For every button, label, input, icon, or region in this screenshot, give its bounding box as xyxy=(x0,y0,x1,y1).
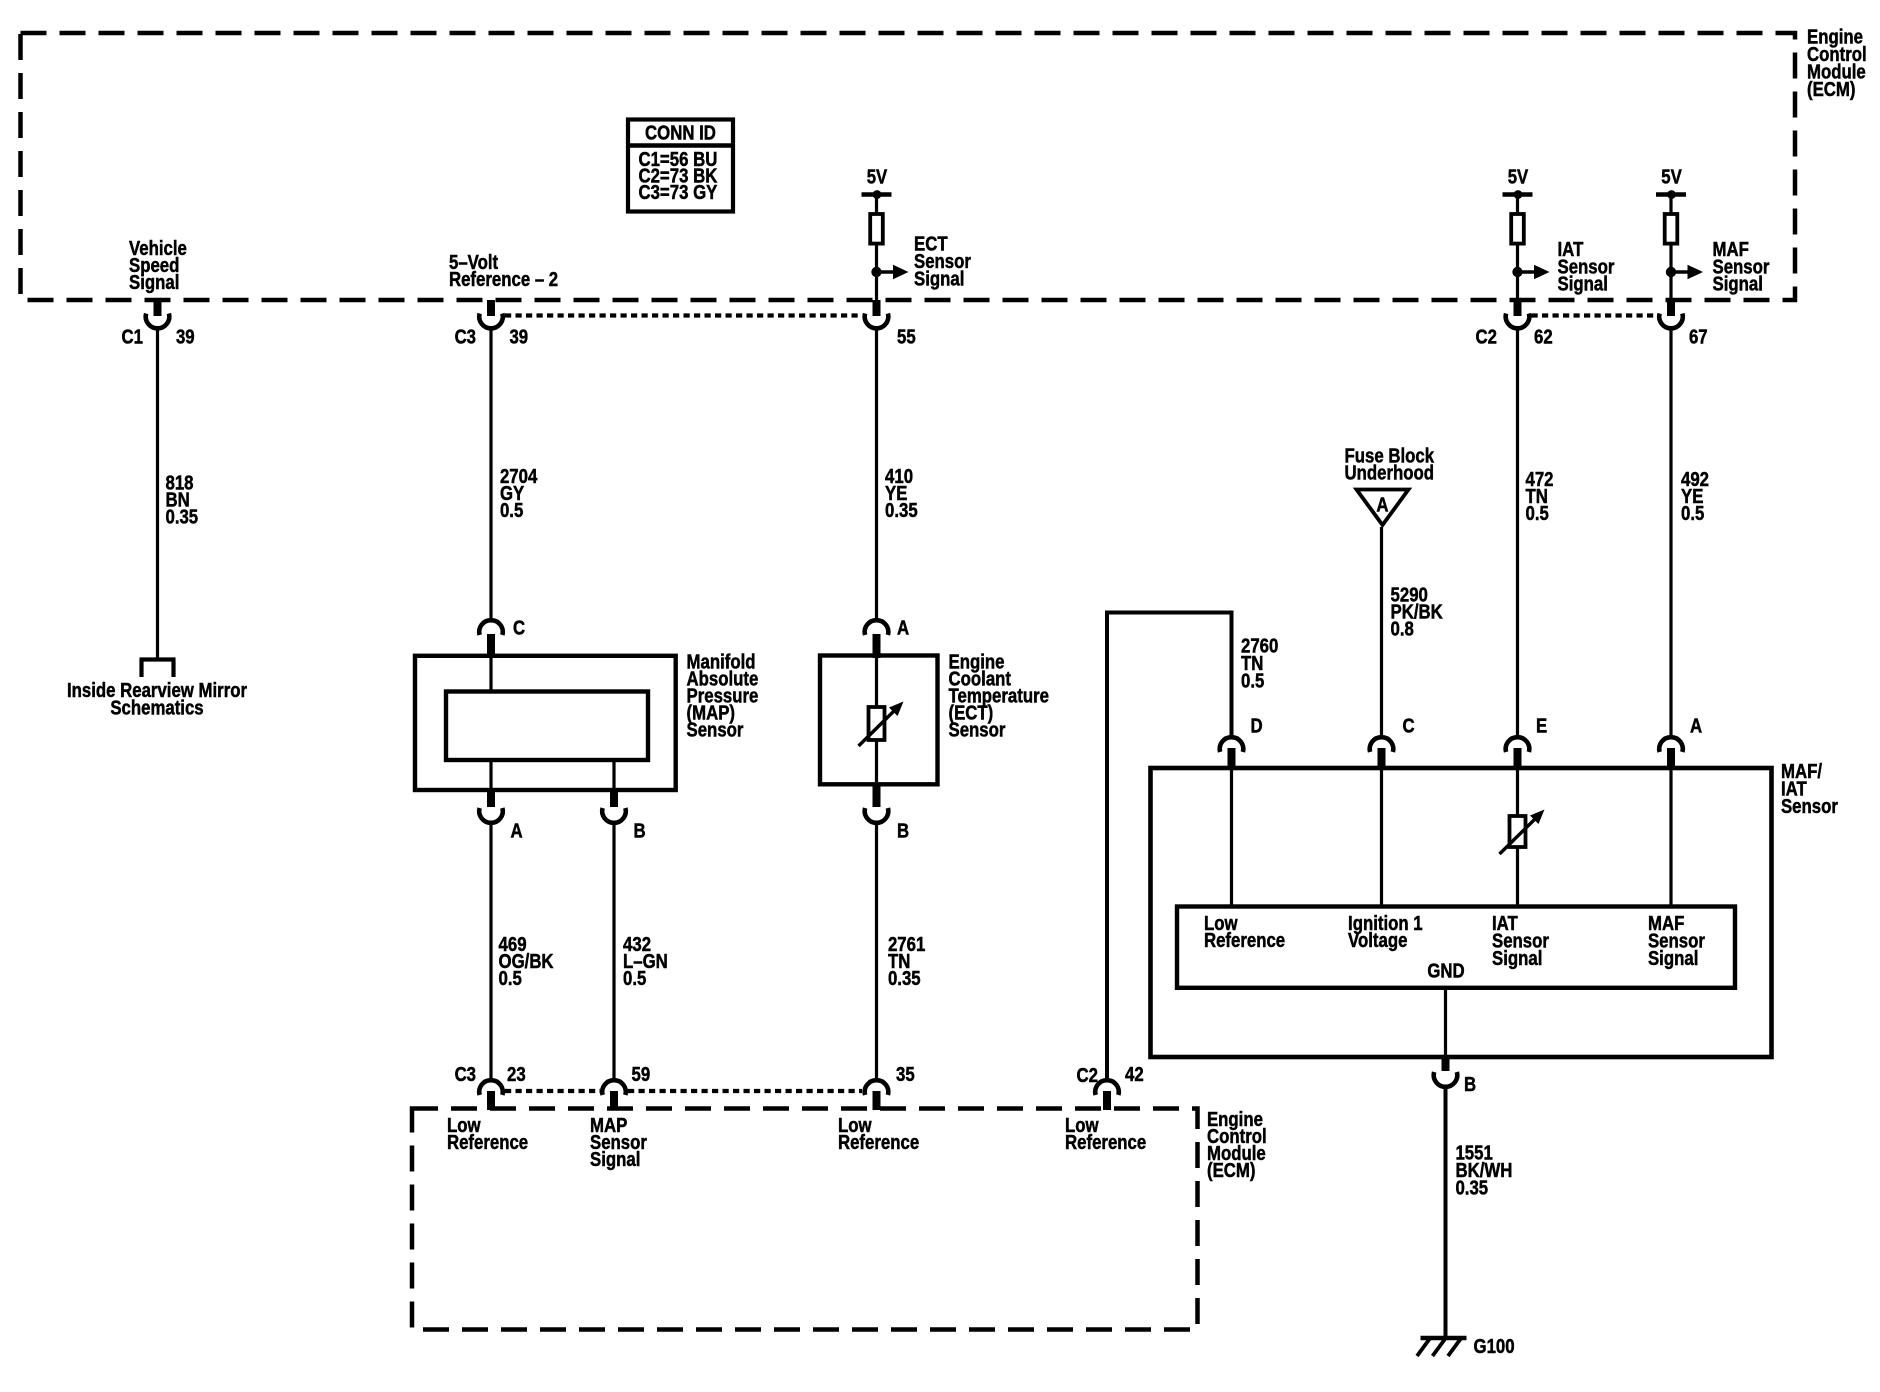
label MAF Sensor Signal (inner) xyxy=(1648,912,1705,970)
wire label 432 L-GN 0.5 xyxy=(623,933,668,990)
svg-text:G100: G100 xyxy=(1474,1335,1515,1358)
wire 492 YE 0.5 xyxy=(1669,329,1672,736)
pull-up resistor (ECT) xyxy=(870,214,883,244)
svg-text:42: 42 xyxy=(1125,1063,1144,1086)
connector C1 pin 39 xyxy=(122,300,195,348)
connector pin C (MAP) xyxy=(479,616,525,658)
svg-text:39: 39 xyxy=(176,325,195,348)
wire 410 YE 0.35 xyxy=(875,329,878,619)
wire IAT signal (inside ECM) xyxy=(1516,243,1519,303)
svg-text:A: A xyxy=(1690,714,1702,737)
connector pin A (MAP) xyxy=(479,789,522,842)
svg-text:5V: 5V xyxy=(1508,165,1529,188)
node: Vehicle Speed Signal xyxy=(129,237,187,294)
MAF/IAT inner block xyxy=(1177,907,1735,988)
label Low Reference (pin 35) xyxy=(838,1114,919,1154)
label G100 xyxy=(1474,1335,1515,1358)
wire 469 OG/BK 0.5 xyxy=(489,824,492,1080)
svg-text:C2: C2 xyxy=(1476,325,1497,348)
svg-text:C: C xyxy=(1402,714,1414,737)
svg-text:55: 55 xyxy=(897,325,916,348)
svg-text:C1: C1 xyxy=(122,325,143,348)
connector pin B (MAP) xyxy=(602,789,645,842)
wire label 1551 BK/WH 0.35 xyxy=(1455,1141,1512,1199)
label Low Reference (inner) xyxy=(1204,912,1285,952)
svg-text:Sensor: Sensor xyxy=(949,718,1006,741)
pull-up resistor (IAT) xyxy=(1511,214,1524,244)
connector C2 pin 62 xyxy=(1476,300,1553,348)
MAP sensor inner element xyxy=(446,658,648,789)
svg-text:Underhood: Underhood xyxy=(1345,461,1435,484)
svg-text:Voltage: Voltage xyxy=(1348,929,1407,952)
svg-text:Reference – 2: Reference – 2 xyxy=(449,268,558,291)
connector C3 pin 39 xyxy=(455,300,529,348)
off-page connector to Inside Rearview Mirror xyxy=(140,660,176,678)
svg-text:0.35: 0.35 xyxy=(888,967,921,990)
label GND xyxy=(1427,959,1464,982)
wire label 2704 GY 0.5 xyxy=(500,465,538,522)
connector C3 pin 23 xyxy=(455,1063,526,1110)
internal wire Low Reference xyxy=(1230,770,1233,907)
svg-text:0.5: 0.5 xyxy=(1526,502,1549,525)
svg-text:Signal: Signal xyxy=(914,267,964,290)
ECM top box label xyxy=(1807,25,1867,100)
CONN ID table xyxy=(628,120,733,212)
twisted pair dotted line C3-39 to 55 xyxy=(505,313,862,317)
connector pin A (MAF/IAT) xyxy=(1659,714,1702,770)
label MAP Sensor Signal (pin 59) xyxy=(590,1114,647,1171)
label Ignition 1 Voltage xyxy=(1348,912,1423,952)
wire 472 TN 0.5 xyxy=(1516,329,1519,736)
internal wire Ignition 1 xyxy=(1380,770,1383,907)
twisted pair dotted line 23-59-35 xyxy=(505,1089,862,1093)
ground G100 xyxy=(1417,1338,1467,1356)
svg-text:Signal: Signal xyxy=(1648,947,1698,970)
connector pin 35 xyxy=(865,1063,915,1110)
wire label 5290 PK/BK 0.8 xyxy=(1391,583,1444,640)
ECT sensor label xyxy=(949,650,1049,741)
svg-text:0.8: 0.8 xyxy=(1391,617,1414,640)
internal GND wire xyxy=(1444,988,1447,1056)
svg-text:Signal: Signal xyxy=(1558,272,1608,295)
svg-text:GND: GND xyxy=(1427,959,1464,982)
ECT thermistor xyxy=(859,658,904,782)
connector pin E (MAF/IAT) xyxy=(1506,714,1548,770)
svg-text:35: 35 xyxy=(896,1063,915,1086)
svg-text:A: A xyxy=(510,819,522,842)
twisted pair dotted line 62 to 67 xyxy=(1532,313,1658,317)
wire 2760 TN 0.5 xyxy=(1107,613,1232,1080)
svg-text:C3: C3 xyxy=(455,1063,476,1086)
label Inside Rearview Mirror Schematics xyxy=(67,679,247,719)
svg-text:Reference: Reference xyxy=(447,1131,528,1154)
svg-text:5V: 5V xyxy=(1661,165,1682,188)
svg-text:(ECM): (ECM) xyxy=(1807,78,1855,101)
wire 818 BN 0.35 xyxy=(156,329,159,658)
svg-text:D: D xyxy=(1251,714,1263,737)
svg-text:E: E xyxy=(1536,714,1547,737)
wire label 2760 TN 0.5 xyxy=(1241,634,1278,692)
connector C2 pin 42 xyxy=(1077,1063,1144,1110)
MAF/IAT sensor box xyxy=(1151,768,1772,1057)
MAP sensor box xyxy=(415,656,676,790)
svg-text:5V: 5V xyxy=(867,165,888,188)
ECM bottom box label xyxy=(1207,1108,1267,1182)
connector pin 59 xyxy=(602,1063,650,1110)
ECM top box (dashed) xyxy=(21,33,1796,300)
connector pin 67 xyxy=(1659,300,1707,348)
wire 5290 PK/BK 0.8 xyxy=(1380,527,1383,736)
svg-text:A: A xyxy=(1376,493,1388,516)
svg-text:0.5: 0.5 xyxy=(1681,502,1704,525)
connector pin B (ECT) xyxy=(865,783,909,842)
label ECT Sensor Signal xyxy=(914,232,971,290)
connector pin C (MAF/IAT) xyxy=(1370,714,1415,770)
wire label 410 YE 0.35 xyxy=(885,465,918,522)
svg-text:Signal: Signal xyxy=(129,271,179,294)
MAP sensor label xyxy=(687,650,759,741)
junction + MAF signal arrow xyxy=(1666,265,1703,279)
5V supply (IAT) xyxy=(1503,165,1533,215)
svg-text:Signal: Signal xyxy=(1492,947,1542,970)
svg-text:B: B xyxy=(634,819,646,842)
node: 5-Volt Reference - 2 xyxy=(449,251,558,291)
svg-text:Sensor: Sensor xyxy=(687,718,744,741)
svg-text:Signal: Signal xyxy=(590,1148,640,1171)
wire 2761 TN 0.35 xyxy=(875,824,878,1080)
wire 432 L-GN 0.5 xyxy=(612,824,615,1080)
label MAF Sensor Signal xyxy=(1713,238,1770,295)
label Low Reference (pin 23) xyxy=(447,1114,528,1154)
wire MAF signal (inside ECM) xyxy=(1669,243,1672,303)
MAF/IAT sensor label xyxy=(1781,760,1838,818)
label IAT Sensor Signal xyxy=(1558,238,1615,295)
wire ECT signal (inside ECM) xyxy=(875,243,878,303)
svg-text:0.5: 0.5 xyxy=(500,499,523,522)
svg-text:C: C xyxy=(513,616,525,639)
connector pin B (MAF/IAT) xyxy=(1434,1055,1476,1095)
junction + ECT signal arrow xyxy=(871,265,908,279)
internal wire IAT + thermistor xyxy=(1500,770,1545,907)
wire label 818 BN 0.35 xyxy=(165,471,198,528)
svg-text:C3=73 GY: C3=73 GY xyxy=(638,181,717,204)
connector pin 55 xyxy=(865,300,916,348)
svg-text:0.5: 0.5 xyxy=(623,967,646,990)
wire 1551 BK/WH 0.35 xyxy=(1444,1088,1448,1339)
svg-text:(ECM): (ECM) xyxy=(1207,1159,1255,1182)
svg-text:Schematics: Schematics xyxy=(110,696,203,719)
svg-text:62: 62 xyxy=(1534,325,1553,348)
svg-text:0.35: 0.35 xyxy=(885,499,918,522)
svg-text:B: B xyxy=(1464,1073,1476,1096)
label IAT Sensor Signal (inner) xyxy=(1492,912,1549,970)
svg-text:Reference: Reference xyxy=(1065,1131,1146,1154)
svg-text:0.35: 0.35 xyxy=(1455,1176,1488,1199)
ECM bottom box (dashed) xyxy=(412,1109,1198,1330)
svg-text:B: B xyxy=(897,819,909,842)
svg-text:23: 23 xyxy=(507,1063,526,1086)
svg-text:C3: C3 xyxy=(455,325,476,348)
svg-text:Reference: Reference xyxy=(838,1131,919,1154)
svg-text:59: 59 xyxy=(632,1063,651,1086)
connector pin A (ECT) xyxy=(865,616,909,658)
svg-text:Sensor: Sensor xyxy=(1781,795,1838,818)
svg-text:C2: C2 xyxy=(1077,1064,1098,1087)
internal wire MAF xyxy=(1669,770,1672,907)
svg-text:0.35: 0.35 xyxy=(165,505,198,528)
wire label 472 TN 0.5 xyxy=(1526,468,1554,525)
5V supply (MAF) xyxy=(1656,165,1686,215)
wire label 2761 TN 0.35 xyxy=(888,933,925,990)
svg-text:Signal: Signal xyxy=(1713,272,1763,295)
wire 2704 GY 0.5 xyxy=(489,329,492,619)
svg-text:39: 39 xyxy=(509,325,528,348)
ECT sensor box xyxy=(820,656,938,785)
svg-text:0.5: 0.5 xyxy=(499,967,522,990)
label Low Reference (pin 42) xyxy=(1065,1114,1146,1154)
junction + IAT signal arrow xyxy=(1512,265,1549,279)
svg-text:CONN ID: CONN ID xyxy=(645,121,716,144)
svg-text:A: A xyxy=(897,616,909,639)
svg-text:67: 67 xyxy=(1689,325,1708,348)
off-page triangle A (Fuse Block) xyxy=(1357,490,1409,526)
pull-up resistor (MAF) xyxy=(1665,214,1678,244)
svg-text:0.5: 0.5 xyxy=(1241,669,1264,692)
connector pin D (MAF/IAT) xyxy=(1220,714,1263,770)
wire label 469 OG/BK 0.5 xyxy=(499,933,555,990)
wire label 492 YE 0.5 xyxy=(1681,468,1709,525)
5V supply (ECT) xyxy=(862,165,892,215)
svg-text:Reference: Reference xyxy=(1204,929,1285,952)
label Fuse Block Underhood xyxy=(1345,444,1435,484)
